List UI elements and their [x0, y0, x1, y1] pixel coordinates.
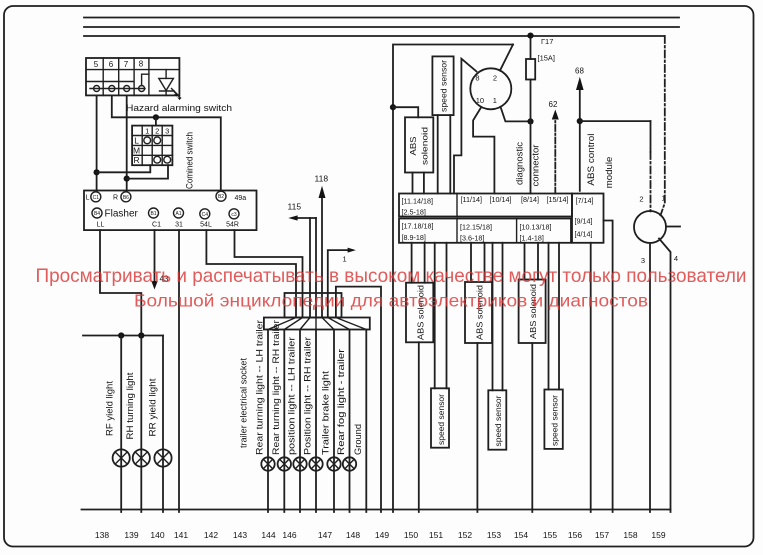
svg-text:module: module [604, 157, 615, 189]
label node 2 [639, 195, 643, 204]
node fuse bottom junction [527, 118, 533, 124]
svg-text:[8.9-18]: [8.9-18] [402, 233, 426, 242]
wire C1 down to arrow 43 [151, 230, 157, 289]
wire fuse net down into connector row [530, 121, 532, 193]
connector row1 labels [402, 195, 569, 217]
label node 4 [674, 254, 678, 263]
node junction pin7 net [124, 176, 130, 182]
svg-text:Просматривать и распечатывать: Просматривать и распечатывать в высоком … [36, 265, 747, 287]
label RH turning light (rotated) [125, 372, 135, 440]
svg-text:31: 31 [175, 222, 183, 229]
svg-text:49a: 49a [235, 195, 247, 202]
svg-text:2: 2 [155, 127, 159, 136]
label RF yield light (rotated) [104, 380, 114, 436]
node junction ABS left line [390, 104, 396, 110]
hazard switch contact bar and terminals [90, 86, 145, 92]
svg-text:Rear fog light - trailer: Rear fog light - trailer [336, 349, 346, 455]
label trailer electrical socket (rotated) [239, 358, 250, 448]
svg-text:L: L [134, 136, 139, 146]
svg-text:1: 1 [493, 96, 497, 105]
connector row2 box [399, 219, 571, 243]
wire B1 pin b down [449, 115, 451, 193]
wire right box side to track 157 [604, 221, 613, 513]
svg-text:[11/14]: [11/14] [461, 195, 482, 204]
svg-text:[2.5-18]: [2.5-18] [402, 208, 426, 217]
speed sensor B1 body [432, 56, 453, 115]
svg-text:8: 8 [139, 60, 144, 69]
svg-text:8: 8 [475, 73, 479, 82]
wires row2 to ABS solenoid U4 [471, 243, 485, 282]
svg-text:B4: B4 [94, 211, 100, 217]
wire top bus line 3 (net to fuse F17 and node 1) [84, 35, 665, 37]
svg-text:54R: 54R [226, 222, 239, 229]
svg-text:c3: c3 [231, 212, 237, 218]
svg-text:Ground: Ground [353, 424, 363, 455]
track numbers 138-159 [95, 530, 666, 540]
svg-text:154: 154 [514, 530, 528, 540]
trailer socket body bar [264, 318, 370, 330]
flasher terminal L C1 [86, 192, 101, 202]
svg-text:156: 156 [568, 530, 582, 540]
svg-text:6: 6 [109, 60, 114, 69]
diagnostic connector pin numbers 8 2 10 1 [475, 73, 497, 105]
svg-text:RH turning light: RH turning light [125, 372, 135, 440]
wire pin2 net horizontal and left drop track 150 [393, 45, 513, 513]
wire stub right from X2 [666, 226, 680, 228]
svg-text:B6: B6 [123, 195, 129, 201]
svg-text:Rear turning light -- RH trail: Rear turning light -- RH trailer [271, 320, 281, 455]
svg-text:143: 143 [233, 530, 247, 540]
svg-text:[12.15/18]: [12.15/18] [460, 223, 492, 232]
lamp E2 RH turning light [133, 449, 150, 466]
svg-text:153: 153 [487, 530, 501, 540]
watermark line 2 [134, 291, 648, 311]
svg-text:115: 115 [288, 202, 302, 212]
wire pin8 path down to connector row [454, 59, 477, 194]
svg-text:[10.13/18]: [10.13/18] [520, 223, 552, 232]
svg-text:diagnostic: diagnostic [514, 142, 525, 185]
svg-text:2: 2 [639, 195, 643, 204]
node lamp bus junction 2 [138, 332, 144, 338]
combined switch contacts row L [144, 137, 161, 144]
svg-text:position light -- LH trailer: position light -- LH trailer [287, 337, 297, 455]
lamp E5 rear turning RH trailer [278, 457, 291, 470]
svg-text:[3.6-18]: [3.6-18] [460, 234, 484, 243]
svg-text:140: 140 [150, 530, 164, 540]
wire U3 bottom to bus track 150 [418, 342, 420, 512]
speed sensor B3 body [488, 390, 506, 449]
label ABS solenoid U5 (rotated) [528, 284, 538, 339]
svg-text:7: 7 [124, 60, 129, 69]
hazard alarming switch S2 body [86, 58, 179, 95]
wire combined switch feed from junction [155, 117, 157, 125]
label speed sensor B1 (rotated) [439, 60, 449, 112]
label Hazard alarming switch [126, 103, 232, 114]
wire socket out 2 track 146 [283, 330, 285, 513]
wire socket out 6 [349, 330, 351, 513]
svg-text:1: 1 [343, 255, 347, 264]
wire socket out 4 [315, 330, 317, 513]
svg-text:54L: 54L [200, 222, 212, 229]
wire 54R to trailer socket [235, 230, 303, 317]
wire RR yield light track 140 [162, 336, 164, 513]
lamp E4 rear turning LH trailer [261, 457, 274, 470]
combined switch column labels 1 2 3 [145, 126, 169, 135]
node junction on pin6 net for combined switch [153, 114, 159, 120]
trailer socket fan wires [268, 318, 366, 330]
wire node2 drop to connector circle [650, 121, 652, 211]
svg-text:speed sensor: speed sensor [550, 395, 560, 446]
svg-text:138: 138 [95, 530, 109, 540]
svg-text:142: 142 [204, 530, 218, 540]
ABS solenoid U3 body [406, 283, 433, 343]
svg-text:[1.4-18]: [1.4-18] [520, 234, 544, 243]
wire arrow 118 up feed [319, 186, 326, 318]
label speed sensor B2 (rotated) [436, 394, 446, 445]
combined switch S1 body grid [132, 126, 172, 166]
svg-text:speed sensor: speed sensor [493, 395, 503, 446]
flasher terminal B4 and name [92, 208, 139, 220]
wire right box bottom to bus track 156 [590, 243, 592, 512]
svg-text:L: L [86, 195, 90, 202]
svg-text:solenoid: solenoid [419, 127, 429, 165]
ABS solenoid U2 body [405, 117, 433, 172]
svg-text:151: 151 [429, 530, 443, 540]
label ABS control module (rotated) [586, 134, 615, 189]
svg-text:[9/14]: [9/14] [575, 217, 593, 226]
fuse F17 15A [526, 36, 535, 122]
label Position light RH trailer (rotated) [303, 337, 313, 455]
label 115 [288, 202, 302, 212]
wire U4 bottom to bus track 152 [476, 343, 478, 512]
wire branch to ABS solenoid U2 top [393, 107, 418, 117]
wire socket out 1 track 144 [267, 330, 269, 513]
svg-text:3: 3 [641, 256, 645, 265]
wire top bus line 2 [84, 26, 679, 28]
lamp E7 position RH trailer [309, 457, 322, 470]
watermark line 1 [36, 265, 747, 287]
wire socket out 5 [333, 330, 335, 513]
wire socket out 3 [299, 330, 301, 513]
svg-text:158: 158 [623, 530, 637, 540]
svg-text:Rear turning light -- LH trail: Rear turning light -- LH trailer [255, 320, 265, 455]
svg-text:5: 5 [94, 60, 99, 69]
diagonal pin2 of diagnostic connector [500, 45, 513, 71]
svg-text:155: 155 [543, 530, 557, 540]
lamp E9 rear fog light trailer [343, 457, 356, 470]
svg-text:Position light -- RH trailer: Position light -- RH trailer [303, 337, 313, 455]
svg-text:144: 144 [261, 530, 275, 540]
wire lamp bus [83, 335, 163, 337]
wire socket ground out [365, 330, 367, 513]
speed sensor B4 body [544, 390, 562, 449]
wires row2 to speed sensor B2 [435, 243, 447, 388]
ABS solenoid U5 body [519, 280, 546, 344]
wire U5 bottom to bus track 155 [531, 343, 533, 512]
label Rear turning light RH trailer (rotated) [271, 320, 281, 455]
node junction 68 line [577, 118, 583, 124]
svg-text:LL: LL [97, 222, 105, 229]
svg-text:148: 148 [346, 530, 360, 540]
svg-text:4: 4 [674, 254, 678, 263]
svg-text:Comined switch: Comined switch [185, 132, 196, 189]
wire RF yield light track 138 [120, 336, 122, 513]
lamp E1 RF yield light [113, 449, 130, 466]
trailer socket connector housing [285, 293, 342, 318]
wire 115 drop b [315, 218, 317, 318]
svg-text:[15/14]: [15/14] [547, 195, 569, 204]
flasher terminal B1 [149, 208, 159, 218]
label diagnostic connector (rotated) [514, 142, 541, 187]
svg-text:10: 10 [476, 96, 484, 105]
label speed sensor B4 (rotated) [550, 395, 560, 446]
label ABS solenoid U3 (rotated) [416, 285, 426, 340]
flasher terminal A1 [174, 208, 184, 218]
svg-text:[15A]: [15A] [538, 54, 556, 63]
svg-text:[4/14]: [4/14] [575, 230, 593, 239]
label 118 [315, 174, 329, 184]
svg-text:[17.18/18]: [17.18/18] [402, 222, 434, 231]
wire arrow 1 feed right [328, 248, 356, 318]
wire 62 dash-dot with up arrow [552, 110, 559, 194]
svg-text:150: 150 [404, 530, 418, 540]
combined switch contacts row R [154, 156, 171, 163]
wire B1 pin a down [437, 115, 439, 193]
svg-text:C1: C1 [93, 195, 100, 201]
svg-text:2: 2 [493, 73, 497, 82]
svg-text:ABS control: ABS control [586, 134, 597, 186]
wire pin4 down to bus track 159 [659, 239, 671, 513]
wire hazard pin7 down to flasher B6 [126, 95, 128, 191]
svg-text:139: 139 [124, 530, 138, 540]
label fuse Г17 [15A] [538, 37, 556, 63]
wire pin3 down to bus track 158 [649, 243, 651, 512]
wire dash-dot drop to node 1 of connector [661, 36, 665, 215]
wire 54L to trailer socket [206, 230, 296, 317]
svg-text:62: 62 [549, 100, 558, 109]
wire arrow 115 feed [288, 215, 316, 220]
wires row2 to ABS solenoid U5 [525, 243, 539, 280]
lamp E6 position LH trailer [293, 457, 306, 470]
svg-text:trailer electrical socket: trailer electrical socket [239, 358, 250, 448]
lamp E8 trailer brake light [327, 457, 340, 470]
svg-text:B1: B1 [150, 211, 156, 217]
svg-text:152: 152 [458, 530, 472, 540]
svg-text:[11.14/18]: [11.14/18] [402, 197, 433, 206]
svg-text:C4: C4 [202, 212, 209, 218]
wire top bus line 1 [84, 17, 679, 19]
wire socket pin to track 149 [336, 287, 381, 512]
svg-text:[10/14]: [10/14] [490, 195, 512, 204]
svg-text:M: M [133, 145, 140, 155]
svg-text:68: 68 [575, 67, 584, 76]
label 1 arrow [343, 255, 347, 264]
label 68 [575, 67, 584, 76]
wire U2 pin b to connector row [423, 173, 425, 194]
label Rear fog light trailer (rotated) [336, 349, 346, 455]
wire bottom bus [82, 509, 671, 511]
svg-text:141: 141 [174, 530, 188, 540]
wire U2 pin a to connector row [412, 173, 414, 194]
wire LL to lamp bus [100, 230, 141, 335]
wire hazard pin5 down to flasher C1 [96, 95, 98, 191]
label ABS solenoid U4 (rotated) [475, 285, 485, 340]
svg-text:speed sensor: speed sensor [436, 394, 446, 445]
wire pin8 to LED cell [142, 74, 149, 85]
svg-text:[7/14]: [7/14] [576, 196, 594, 205]
label Rear turning light LH trailer (rotated) [255, 320, 265, 455]
flasher terminal c3 [229, 209, 239, 219]
svg-text:Trailer brake light: Trailer brake light [321, 370, 331, 455]
hazard switch pin labels 5 6 7 8 [94, 60, 144, 70]
flasher terminal C4 [200, 209, 210, 219]
svg-text:RF yield light: RF yield light [104, 380, 114, 436]
connector right box labels [575, 196, 594, 239]
wire pin1 path to fuse net [501, 107, 531, 122]
svg-text:1: 1 [661, 194, 665, 203]
svg-text:3: 3 [165, 126, 169, 135]
label 43 [160, 275, 169, 284]
svg-text:RR yield light: RR yield light [148, 378, 158, 437]
svg-text:R: R [134, 155, 140, 165]
wires row2 to speed sensor B4 [549, 243, 560, 390]
diagnostic connector X1 circle [470, 68, 511, 109]
wire junction to right circle node 2 [580, 120, 651, 122]
flasher terminal B2 49a [216, 191, 246, 202]
label Comined switch (rotated) [185, 132, 196, 189]
wire combined switch R3 to pin5 net [97, 165, 151, 172]
wire 31 ground track down to bottom bus [178, 230, 180, 512]
wire hazard pin6 down then right to flasher B2 [112, 95, 221, 191]
combined switch row labels L M R [133, 136, 140, 165]
label node 3 [641, 256, 645, 265]
label speed sensor B3 (rotated) [493, 395, 503, 446]
label ABS solenoid U2 (rotated two lines) [408, 127, 430, 165]
svg-text:R: R [113, 195, 118, 202]
svg-text:118: 118 [315, 174, 329, 184]
LED indicator inside hazard switch [159, 70, 181, 101]
label node 1 [661, 194, 665, 203]
svg-text:Flasher: Flasher [105, 209, 139, 220]
flasher terminal R B6 [113, 192, 131, 202]
connector row1 box [399, 194, 572, 217]
svg-text:Г17: Г17 [541, 37, 553, 46]
svg-text:146: 146 [282, 530, 296, 540]
svg-text:149: 149 [375, 530, 389, 540]
ABS solenoid U4 body [465, 282, 492, 343]
lamp E3 RR yield light [154, 449, 171, 466]
svg-text:B2: B2 [218, 194, 224, 200]
label position light LH trailer (rotated) [287, 337, 297, 455]
connector row2 labels [402, 222, 552, 243]
wire 115 drop a [309, 218, 311, 318]
label RR yield light (rotated) [148, 378, 158, 437]
wire RH turning light track 139 [140, 336, 142, 513]
svg-text:Большой энциклопедии для автоэ: Большой энциклопедии для автоэлектриков … [134, 291, 648, 311]
svg-text:speed sensor: speed sensor [439, 60, 449, 112]
node junction pin5 net [94, 169, 100, 175]
node lamp bus junction 1 [118, 332, 124, 338]
label Trailer brake light (rotated) [321, 370, 331, 455]
wire 68 up arrow to ABS control module [576, 77, 584, 191]
svg-text:1: 1 [145, 127, 149, 136]
svg-text:A1: A1 [175, 211, 181, 217]
connector right box [572, 194, 604, 243]
label 62 [549, 100, 558, 109]
wires row2 to speed sensor B3 [493, 243, 503, 390]
connector circle X2 [634, 211, 666, 243]
node fuse top junction on bus 3 [527, 33, 533, 39]
svg-text:connector: connector [531, 145, 542, 187]
svg-text:[8/14]: [8/14] [521, 195, 539, 204]
label Ground (rotated) [353, 424, 363, 455]
wire combined switch R4 to pin7 net [127, 165, 168, 178]
svg-text:ABS: ABS [408, 136, 418, 155]
flasher relay K1 body [84, 191, 257, 231]
svg-text:Hazard alarming switch: Hazard alarming switch [126, 103, 232, 114]
speed sensor B2 body [431, 388, 449, 447]
wire pin10 path down to connector row [473, 108, 494, 194]
svg-text:159: 159 [651, 530, 665, 540]
svg-text:157: 157 [595, 530, 609, 540]
svg-text:147: 147 [318, 530, 332, 540]
svg-text:C1: C1 [152, 222, 161, 229]
flasher pin names LL C1 31 54L 54R [97, 222, 239, 229]
wires row2 to ABS solenoid U3 [412, 243, 425, 283]
